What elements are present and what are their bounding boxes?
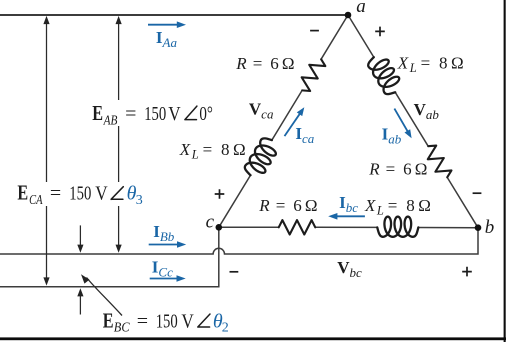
wire line B (with hop over line-C riser, rising to node b) <box>0 228 478 254</box>
current arrow Ica (up toward node a) <box>285 113 301 137</box>
polarity plus (Vbc side at node b) <box>462 267 472 277</box>
svg-text:AB: AB <box>103 113 118 128</box>
node a junction dot <box>345 12 352 19</box>
polarity minus (Vbc side at node c) <box>230 271 239 273</box>
resistor R = 6 ohm (branch b-c) <box>279 220 316 234</box>
svg-text:150: 150 <box>69 183 91 205</box>
wire branch c-b left segment <box>219 226 279 228</box>
svg-text:E: E <box>103 308 114 332</box>
label ECA = 150 V angle theta3 <box>17 181 142 208</box>
svg-text:=: = <box>137 310 148 332</box>
polarity plus (Vab side at node a) <box>375 27 385 37</box>
resistor R = 6 ohm (branch c-a) <box>296 55 327 94</box>
inductor XL = 8 ohm (branch c-a) <box>242 135 281 181</box>
EBC dimension lower arrow (up to line C) <box>79 292 81 315</box>
svg-text:a: a <box>356 0 366 17</box>
node b junction dot <box>475 224 482 231</box>
node c junction dot <box>216 224 223 231</box>
white halo behind EAB label <box>90 100 216 126</box>
svg-text:CA: CA <box>29 193 43 208</box>
current arrow Iab (down toward node b) <box>394 109 408 133</box>
svg-text:BC: BC <box>114 321 130 336</box>
ECA dimension line (line A to line C) <box>46 19 48 282</box>
figure right border <box>504 0 506 342</box>
svg-text:150: 150 <box>156 310 178 332</box>
wire branch a-b upper segment <box>348 15 374 57</box>
wire branch c-b right segment <box>418 227 478 229</box>
svg-text:150: 150 <box>144 103 166 125</box>
wire branch a-c middle segment <box>272 91 302 140</box>
polarity minus (Vca side at node a) <box>310 30 319 32</box>
inductor XL = 8 ohm (branch b-c) <box>377 217 418 237</box>
EAB dimension line (line A to line B) <box>118 19 120 249</box>
wire branch a-b lower segment <box>448 178 478 228</box>
svg-text:0°: 0° <box>199 103 213 125</box>
resistor R = 6 ohm (branch a-b) <box>422 142 453 181</box>
svg-text:V: V <box>95 183 108 205</box>
current arrow IAa <box>148 24 179 26</box>
polarity minus (Vab side at node b) <box>473 192 482 194</box>
svg-text:3: 3 <box>136 193 143 208</box>
label EBC = 150 V angle theta2 <box>103 308 229 335</box>
svg-text:b: b <box>485 217 495 238</box>
EBC dimension upper arrow (down to line B) <box>79 225 81 249</box>
current arrow ICc <box>150 278 179 280</box>
wire line A (top phase conductor) <box>0 14 348 16</box>
wire branch c-b middle segment <box>315 226 377 228</box>
svg-text:E: E <box>92 101 103 125</box>
inductor XL = 8 ohm (branch a-b) <box>366 52 405 98</box>
current arrow Ibc (leftward) <box>335 215 365 217</box>
svg-text:2: 2 <box>222 321 229 336</box>
label EAB = 150 V angle 0 deg <box>92 101 213 128</box>
svg-text:=: = <box>125 103 136 125</box>
current arrow IBb <box>149 244 179 246</box>
wire branch a-b middle segment <box>395 92 428 145</box>
wire line C (rising to node c under the hop) <box>0 227 219 286</box>
svg-text:V: V <box>168 103 181 125</box>
polarity plus (Vca side at node c) <box>215 189 225 199</box>
svg-text:E: E <box>17 181 28 205</box>
wire branch a-c upper segment <box>321 15 348 59</box>
svg-text:=: = <box>50 183 61 205</box>
figure bottom border <box>0 337 506 340</box>
wire branch a-c lower segment <box>219 175 251 227</box>
white halo behind ECA label <box>16 182 142 206</box>
svg-text:c: c <box>206 211 215 232</box>
EBC curved leader arrow <box>87 278 123 316</box>
svg-text:V: V <box>181 310 194 332</box>
